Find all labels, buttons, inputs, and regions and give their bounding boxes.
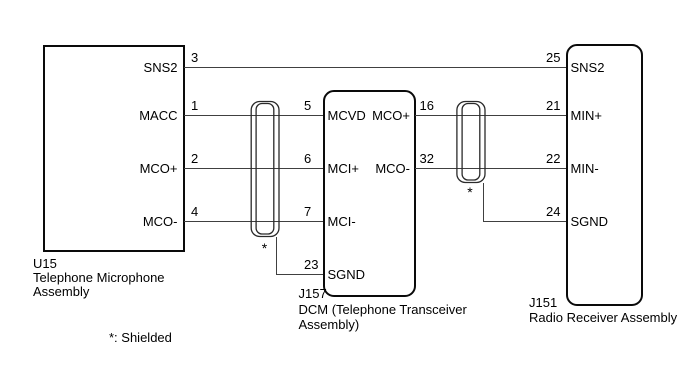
- pin label MIN- (J151): [571, 161, 599, 176]
- pin label MCO- (J157 right): [330, 161, 410, 176]
- component name Telephone Microphone Assembly: [33, 271, 165, 300]
- pin number 1 (U15 MACC): [191, 98, 198, 113]
- connector J151 box (Radio Receiver Assembly): [566, 44, 643, 306]
- pin label MCO+ (J157 right): [330, 108, 410, 123]
- wire MCO- net J157 pin32 to J151 pin22 (MIN-): [415, 168, 566, 169]
- pin number 4 (U15 MCO-): [191, 204, 198, 219]
- pin number 22 (J151 MIN-): [546, 151, 560, 166]
- pin number 6 (J157 MCI+): [304, 151, 311, 166]
- pin label MCI+ (J157): [328, 161, 359, 176]
- shield drain wire left vertical: [276, 237, 277, 275]
- pin label SGND (J157): [328, 267, 366, 282]
- pin label MIN+ (J151): [571, 108, 602, 123]
- wire MCO- net U15 pin4 to J157 pin7 (MCI-): [184, 221, 323, 222]
- wire SNS2 net U15 pin3 to J151 pin25: [184, 67, 566, 68]
- pin number 25 (J151 SNS2): [546, 50, 560, 65]
- shield symbol left cable (shielded pair U15-J157): [244, 94, 286, 244]
- note *: Shielded: [109, 330, 172, 345]
- wire MCO+ net U15 pin2 to J157 pin6 (MCI+): [184, 168, 323, 169]
- reference designator J157: [299, 286, 327, 301]
- pin label MCO+ (U15): [44, 161, 178, 176]
- asterisk marker left shield: [262, 241, 267, 256]
- pin label SNS2 (U15): [44, 60, 178, 75]
- connector U15 box (Telephone Microphone Assembly): [43, 45, 185, 252]
- asterisk marker right shield: [467, 185, 472, 200]
- pin label SNS2 (J151): [571, 60, 605, 75]
- reference designator J151: [529, 295, 557, 310]
- pin label MCO- (U15): [44, 214, 178, 229]
- pin label SGND (J151): [571, 214, 609, 229]
- pin number 32 (J157 MCO-): [420, 151, 434, 166]
- reference designator U15: [33, 256, 57, 271]
- pin label MCI- (J157): [328, 214, 356, 229]
- component name DCM (Telephone Transceiver Assembly): [299, 302, 467, 332]
- pin number 23 (J157 SGND): [304, 257, 318, 272]
- pin label MACC (U15): [44, 108, 178, 123]
- pin number 5 (J157 MCVD): [304, 98, 311, 113]
- pin number 21 (J151 MIN+): [546, 98, 560, 113]
- component name Radio Receiver Assembly: [529, 310, 677, 325]
- wire MACC net U15 pin1 to J157 pin5 (MCVD): [184, 115, 323, 116]
- shield symbol right cable (shielded pair J157-J151): [450, 94, 492, 190]
- shield drain wire right horizontal to J151 pin24 (SGND): [483, 221, 566, 222]
- connector J157 box (DCM Telephone Transceiver Assembly): [323, 90, 416, 297]
- pin number 24 (J151 SGND): [546, 204, 560, 219]
- pin number 16 (J157 MCO+): [420, 98, 434, 113]
- pin label MCVD (J157): [328, 108, 366, 123]
- wire MCO+ net J157 pin16 to J151 pin21 (MIN+): [415, 115, 566, 116]
- pin number 3 (U15 SNS2): [191, 50, 198, 65]
- pin number 7 (J157 MCI-): [304, 204, 311, 219]
- shield drain wire left horizontal to J157 pin23 (SGND): [277, 274, 324, 275]
- pin number 2 (U15 MCO+): [191, 151, 198, 166]
- shield drain wire right vertical: [483, 183, 484, 222]
